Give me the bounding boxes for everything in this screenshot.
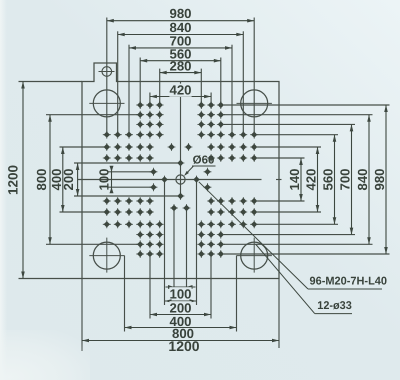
svg-text:96-M20-7H-L40: 96-M20-7H-L40 [310, 276, 388, 288]
svg-text:420: 420 [304, 168, 319, 190]
svg-text:280: 280 [169, 58, 191, 73]
svg-text:980: 980 [169, 6, 191, 21]
svg-text:800: 800 [34, 168, 49, 190]
svg-text:1200: 1200 [168, 338, 199, 354]
svg-text:Ø60: Ø60 [193, 155, 215, 167]
svg-text:12-ø33: 12-ø33 [317, 300, 352, 312]
svg-text:700: 700 [338, 168, 353, 190]
svg-text:200: 200 [61, 168, 76, 190]
svg-text:560: 560 [321, 168, 336, 190]
svg-text:1200: 1200 [6, 165, 21, 195]
svg-text:100: 100 [97, 168, 112, 190]
svg-text:140: 140 [287, 168, 302, 190]
svg-text:100: 100 [169, 286, 191, 301]
svg-text:840: 840 [355, 168, 370, 190]
svg-text:980: 980 [372, 168, 387, 190]
svg-text:420: 420 [169, 83, 191, 98]
